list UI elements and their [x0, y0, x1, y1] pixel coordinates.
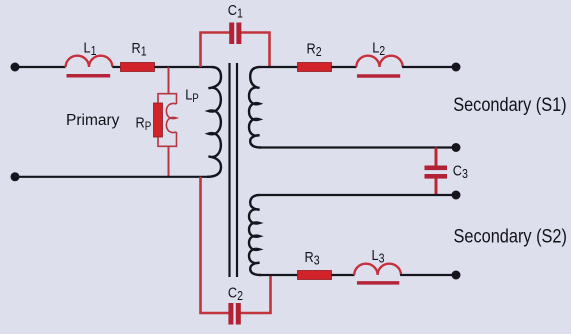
- transformer secondary winding S1: [249, 67, 261, 148]
- transformer core: [230, 63, 238, 277]
- resistor Rp: [154, 103, 163, 137]
- wire R2 to L2: [332, 66, 357, 68]
- wire C3 stem (red): [435, 148, 438, 196]
- node S1 bottom terminal: [452, 143, 461, 152]
- inductor L2 core bar: [357, 74, 400, 78]
- wire S1 top rail: [259, 66, 298, 68]
- wire Rp/Lp parallel loop: [158, 94, 177, 147]
- wire C2 branch (red): [201, 177, 271, 313]
- transformer secondary winding S2: [249, 195, 261, 275]
- node S1 top terminal: [452, 63, 461, 72]
- wire top-left rail: [15, 66, 66, 68]
- wire L2 to S1 terminal: [402, 66, 455, 68]
- inductor L1 core bar: [67, 74, 111, 78]
- inductor L1: [66, 56, 113, 67]
- capacitor C2: [228, 303, 233, 325]
- node S2 bottom terminal: [452, 271, 461, 280]
- capacitor C1: [229, 23, 234, 45]
- wire S2 top rail: [259, 194, 456, 196]
- svg-text:Secondary (S1): Secondary (S1): [453, 94, 566, 115]
- resistor R1: [121, 63, 155, 72]
- wire Rp/Lp to bottom rail (red): [168, 146, 170, 176]
- resistor R2: [298, 63, 332, 72]
- wire L1 to R1: [112, 66, 121, 68]
- wire S2 bottom rail: [260, 274, 298, 276]
- wire S1 bottom rail: [260, 146, 456, 148]
- svg-text:Primary: Primary: [66, 112, 120, 129]
- inductor L2: [356, 56, 402, 67]
- wire C1 branch (red): [201, 33, 270, 68]
- wire L3 to S2 terminal: [400, 274, 455, 276]
- inductor L3 core bar: [357, 281, 399, 285]
- wire branch to Rp/Lp (red): [168, 67, 170, 94]
- inductor Lp: [166, 103, 176, 132]
- svg-text:Secondary (S2): Secondary (S2): [454, 225, 567, 246]
- inductor L3: [354, 264, 401, 275]
- capacitor C3: [425, 166, 448, 171]
- node bottom-left terminal: [11, 172, 20, 181]
- wire bottom-left rail: [15, 176, 209, 178]
- wire R3 to L3: [332, 274, 355, 276]
- resistor R3: [298, 271, 332, 280]
- node primary input top terminal: [11, 63, 20, 72]
- transformer primary winding: [207, 67, 221, 177]
- node S2 top terminal: [452, 191, 461, 200]
- wire R1 to primary coil: [155, 66, 213, 68]
